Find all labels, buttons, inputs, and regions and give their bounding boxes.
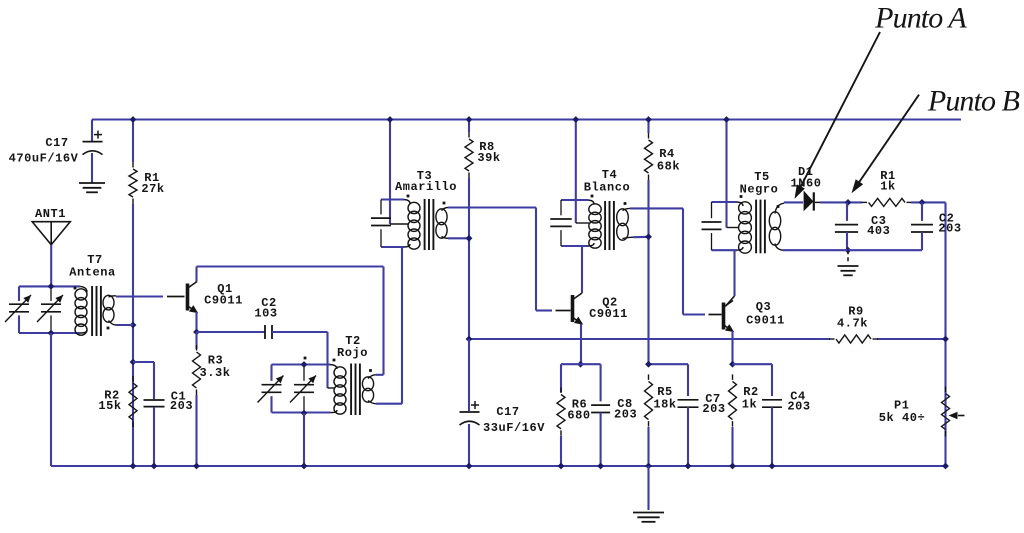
svg-text:103: 103 <box>254 307 277 321</box>
svg-text:33uF/16V: 33uF/16V <box>483 421 545 435</box>
svg-text:Punto A: Punto A <box>874 2 967 35</box>
svg-text:18k: 18k <box>653 398 676 412</box>
svg-text:203: 203 <box>614 408 637 422</box>
svg-text:C9011: C9011 <box>746 314 785 328</box>
svg-text:ANT1: ANT1 <box>35 207 66 221</box>
svg-text:27k: 27k <box>141 182 164 196</box>
svg-text:C9011: C9011 <box>204 294 243 308</box>
svg-text:403: 403 <box>867 224 890 238</box>
svg-text:203: 203 <box>938 222 961 236</box>
svg-text:4.7k: 4.7k <box>837 317 868 331</box>
svg-text:1N60: 1N60 <box>790 177 821 191</box>
svg-text:Antena: Antena <box>69 266 116 280</box>
svg-text:15k: 15k <box>98 399 121 413</box>
svg-text:Q3: Q3 <box>756 300 772 314</box>
svg-text:1k: 1k <box>880 180 896 194</box>
svg-text:39k: 39k <box>477 151 500 165</box>
svg-text:C9011: C9011 <box>589 307 628 321</box>
svg-text:203: 203 <box>787 400 810 414</box>
svg-text:203: 203 <box>702 402 725 416</box>
svg-text:470uF/16V: 470uF/16V <box>9 152 79 166</box>
svg-text:680: 680 <box>567 409 590 423</box>
svg-text:Negro: Negro <box>740 183 779 197</box>
svg-text:C17: C17 <box>45 136 68 150</box>
svg-text:203: 203 <box>170 399 193 413</box>
svg-text:C17: C17 <box>496 405 519 419</box>
svg-text:Punto B: Punto B <box>927 85 1020 118</box>
svg-text:Rojo: Rojo <box>337 346 368 360</box>
svg-text:3.3k: 3.3k <box>199 366 230 380</box>
svg-text:Blanco: Blanco <box>584 181 631 195</box>
svg-text:5k 40÷: 5k 40÷ <box>879 411 926 425</box>
svg-text:1k: 1k <box>742 398 758 412</box>
svg-text:68k: 68k <box>657 160 680 174</box>
svg-text:Amarillo: Amarillo <box>395 180 457 194</box>
